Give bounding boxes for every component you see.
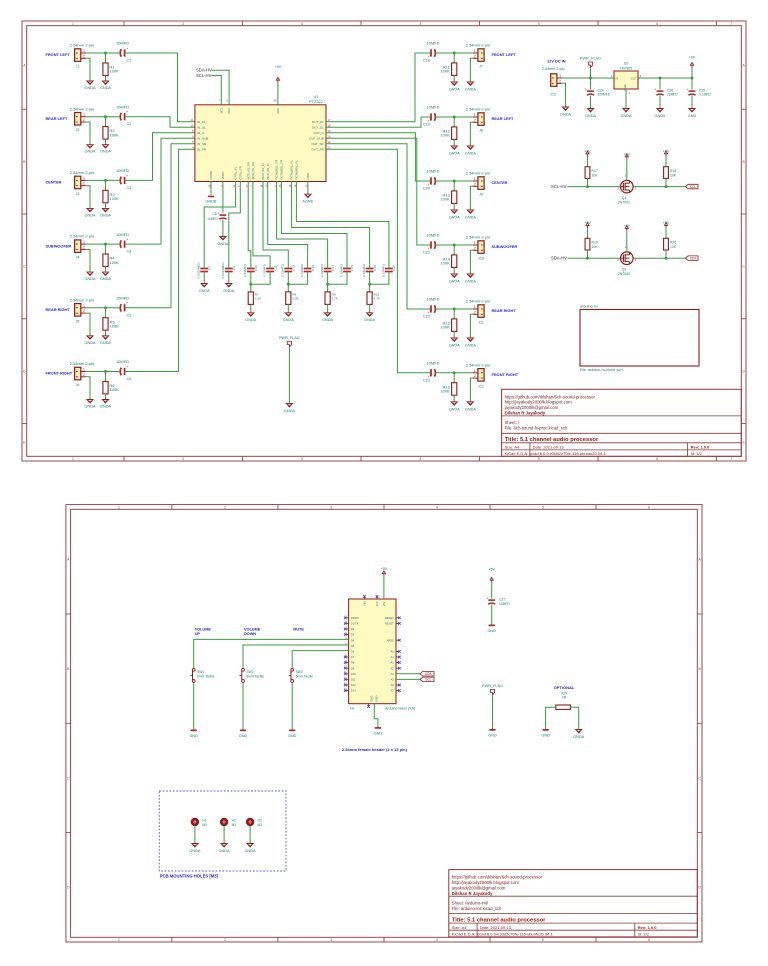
- svg-text:1: 1: [83, 240, 85, 244]
- svg-text:GNDA: GNDA: [245, 849, 256, 853]
- svg-text:0.1MFD: 0.1MFD: [699, 93, 711, 97]
- svg-text:GNDA: GNDA: [199, 289, 210, 293]
- svg-text:2.54mm 2-pin: 2.54mm 2-pin: [70, 43, 94, 48]
- svg-text:1: 1: [118, 506, 120, 510]
- svg-text:1: 1: [474, 49, 476, 53]
- svg-text:0.01MFD: 0.01MFD: [243, 263, 247, 276]
- svg-text:GNDA: GNDA: [284, 409, 295, 413]
- svg-text:GNDA: GNDA: [217, 242, 228, 246]
- svg-text:C12: C12: [292, 265, 296, 271]
- svg-text:jayakody2000lk@gmail.com: jayakody2000lk@gmail.com: [451, 885, 506, 890]
- svg-text:J5: J5: [76, 319, 80, 323]
- svg-text:+5V: +5V: [663, 221, 670, 225]
- svg-text:2.54mm 2-pin: 2.54mm 2-pin: [466, 107, 490, 112]
- svg-text:KiCad E.D.A. kicad 6.0.0-e3dd: KiCad E.D.A. kicad 6.0.0-e3dd2c70fe-116-…: [505, 451, 607, 456]
- svg-text:GNDA: GNDA: [85, 405, 96, 409]
- svg-text:1: 1: [474, 305, 476, 309]
- svg-text:J6: J6: [76, 383, 80, 387]
- svg-text:D13: D13: [351, 689, 356, 693]
- svg-text:GNDA: GNDA: [573, 735, 584, 739]
- svg-text:GNDA: GNDA: [100, 213, 111, 217]
- svg-text:1: 1: [83, 304, 85, 308]
- svg-text:Date: 2021-09-13: Date: 2021-09-13: [480, 925, 512, 930]
- svg-text:SCL: SCL: [425, 678, 431, 682]
- svg-text:SW3: SW3: [296, 670, 303, 674]
- svg-text:RESET: RESET: [385, 616, 394, 620]
- svg-text:J3: J3: [76, 192, 80, 196]
- svg-text:10MFD: 10MFD: [426, 361, 439, 366]
- svg-text:Dilshan R Jayakody: Dilshan R Jayakody: [452, 891, 493, 896]
- svg-text:SCL: SCL: [219, 107, 223, 113]
- svg-text:CENTER: CENTER: [492, 180, 508, 185]
- svg-text:GNDA: GNDA: [100, 341, 111, 345]
- svg-text:100K: 100K: [440, 133, 450, 138]
- svg-text:C3: C3: [127, 186, 132, 190]
- svg-text:B: B: [23, 160, 26, 164]
- svg-text:2N7002: 2N7002: [618, 272, 630, 276]
- svg-text:GNDA: GNDA: [85, 277, 96, 281]
- svg-text:+9V: +9V: [584, 221, 591, 225]
- svg-text:3: 3: [301, 457, 303, 461]
- svg-text:100MFD: 100MFD: [598, 93, 611, 97]
- svg-text:J9: J9: [479, 193, 483, 197]
- svg-text:J7: J7: [479, 65, 483, 69]
- svg-text:A: A: [698, 558, 701, 562]
- svg-text:5: 5: [345, 637, 347, 641]
- svg-text:5: 5: [538, 457, 540, 461]
- svg-text:6: 6: [656, 22, 658, 26]
- svg-text:2: 2: [474, 182, 476, 186]
- svg-text:10MFD: 10MFD: [426, 105, 439, 110]
- svg-text:1: 1: [611, 74, 613, 78]
- svg-text:J12: J12: [478, 384, 484, 388]
- svg-text:SW1: SW1: [197, 670, 204, 674]
- svg-text:2: 2: [182, 22, 184, 26]
- svg-text:E: E: [742, 441, 745, 445]
- svg-text:GND: GND: [541, 734, 550, 738]
- svg-text:OUT_SL: OUT_SL: [312, 126, 324, 130]
- svg-text:CENTER: CENTER: [46, 180, 62, 185]
- svg-text:GNDA: GNDA: [655, 114, 666, 118]
- svg-text:5: 5: [542, 938, 544, 942]
- svg-text:1: 1: [83, 368, 85, 372]
- svg-text:6: 6: [648, 506, 650, 510]
- svg-text:C7: C7: [207, 266, 211, 270]
- svg-text:C: C: [23, 265, 26, 269]
- svg-text:+: +: [585, 87, 587, 91]
- svg-text:4: 4: [436, 938, 438, 942]
- svg-text:IN_FR: IN_FR: [197, 148, 207, 152]
- svg-text:1: 1: [83, 113, 85, 117]
- svg-text:10MFD: 10MFD: [116, 104, 129, 109]
- svg-text:FRONT RIGHT: FRONT RIGHT: [492, 372, 519, 377]
- svg-text:GNDA: GNDA: [223, 289, 234, 293]
- svg-text:Arduino Nano (XA): Arduino Nano (XA): [385, 707, 415, 711]
- svg-text:J13: J13: [550, 93, 556, 97]
- svg-text:5: 5: [538, 22, 540, 26]
- svg-text:PT2322: PT2322: [309, 99, 324, 104]
- svg-text:BCN_B2_FR: BCN_B2_FR: [246, 161, 250, 179]
- svg-text:GND: GND: [306, 172, 310, 180]
- svg-text:2.54mm 2-pin: 2.54mm 2-pin: [466, 299, 490, 304]
- svg-text:2.54mm 2-pin: 2.54mm 2-pin: [70, 106, 94, 111]
- svg-text:https://github.com/dilshan/6ch: https://github.com/dilshan/6ch-sound-pro…: [505, 394, 596, 399]
- svg-text:C: C: [698, 776, 701, 780]
- svg-text:C: C: [742, 265, 745, 269]
- svg-text:2: 2: [83, 182, 85, 186]
- svg-text:PWR_FLAG: PWR_FLAG: [279, 336, 300, 340]
- svg-text:2.54mm 2-pin: 2.54mm 2-pin: [466, 362, 490, 367]
- svg-text:GNDA: GNDA: [449, 88, 460, 92]
- svg-text:E: E: [23, 441, 26, 445]
- svg-text:SCL-HV: SCL-HV: [196, 73, 212, 78]
- svg-text:2.54mm 2-pin: 2.54mm 2-pin: [466, 235, 490, 240]
- svg-text:Id: 2/2: Id: 2/2: [638, 932, 650, 937]
- svg-text:Size: A4: Size: A4: [452, 925, 467, 930]
- svg-text:2.54mm 2-pin: 2.54mm 2-pin: [466, 43, 490, 48]
- svg-text:2: 2: [224, 938, 226, 942]
- svg-text:10MFD: 10MFD: [116, 232, 129, 237]
- svg-text:SCL: SCL: [690, 185, 696, 189]
- svg-text:2: 2: [474, 118, 476, 122]
- svg-text:+9V: +9V: [275, 65, 282, 69]
- svg-text:arduino-hv: arduino-hv: [580, 305, 598, 309]
- svg-text:GNDA: GNDA: [322, 318, 333, 322]
- svg-text:D9: D9: [351, 666, 355, 670]
- svg-text:D12: D12: [351, 683, 356, 687]
- svg-text:C4: C4: [127, 250, 132, 254]
- svg-text:2: 2: [474, 246, 476, 250]
- svg-text:+: +: [126, 110, 128, 114]
- svg-text:+5V: +5V: [624, 224, 631, 228]
- svg-text:D: D: [67, 886, 70, 890]
- svg-text:+5V: +5V: [624, 153, 631, 157]
- svg-text:3V3: 3V3: [375, 601, 379, 606]
- svg-text:A4: A4: [391, 672, 395, 676]
- svg-text:+: +: [126, 365, 128, 369]
- svg-text:D6: D6: [351, 650, 355, 654]
- svg-text:C17: C17: [392, 265, 396, 271]
- svg-text:D4: D4: [351, 638, 355, 642]
- svg-text:IN_SUB: IN_SUB: [197, 137, 208, 141]
- svg-text:C22: C22: [423, 315, 430, 319]
- svg-text:100K: 100K: [440, 389, 450, 394]
- svg-text:SDA-HV: SDA-HV: [196, 68, 212, 73]
- svg-text:UP: UP: [195, 632, 201, 636]
- svg-text:C14: C14: [331, 265, 335, 271]
- svg-text:2.54mm 2-pin: 2.54mm 2-pin: [70, 297, 94, 302]
- svg-text:GND: GND: [288, 734, 297, 738]
- svg-text:File: arduino-hv.kicad_sch: File: arduino-hv.kicad_sch: [580, 368, 623, 372]
- svg-text:10K: 10K: [592, 245, 599, 249]
- svg-text:0.0022MFD: 0.0022MFD: [197, 262, 201, 279]
- svg-text:RESET: RESET: [385, 622, 394, 626]
- svg-text:6: 6: [345, 642, 347, 646]
- svg-text:D1/TX: D1/TX: [351, 622, 359, 626]
- svg-text:5: 5: [542, 506, 544, 510]
- svg-text:+: +: [686, 87, 688, 91]
- svg-text:File: 6ch-sound-fx-proc.kicad_: File: 6ch-sound-fx-proc.kicad_sch: [505, 426, 568, 431]
- svg-text:10MFD: 10MFD: [426, 169, 439, 174]
- svg-text:12V DC IN: 12V DC IN: [547, 59, 566, 64]
- svg-text:RCN&BSL_FL: RCN&BSL_FL: [295, 160, 299, 180]
- svg-text:GNDA: GNDA: [85, 150, 96, 154]
- svg-text:http://jayakody2000lk.blogspot: http://jayakody2000lk.blogspot.com: [505, 400, 573, 405]
- svg-text:GND: GND: [189, 734, 198, 738]
- svg-text:GNDA: GNDA: [100, 86, 111, 90]
- svg-text:2: 2: [224, 506, 226, 510]
- svg-text:100K: 100K: [440, 197, 450, 202]
- svg-text:Sheet: /arduino-init/: Sheet: /arduino-init/: [452, 900, 489, 905]
- svg-text:OUT_SR: OUT_SR: [311, 142, 324, 146]
- svg-text:A1: A1: [391, 655, 395, 659]
- svg-text:D0/RX: D0/RX: [351, 616, 359, 620]
- svg-text:+: +: [126, 174, 128, 178]
- svg-text:2.54mm 2-pin: 2.54mm 2-pin: [70, 234, 94, 239]
- svg-text:J1: J1: [76, 65, 80, 69]
- svg-text:GNDA: GNDA: [449, 216, 460, 220]
- svg-text:GNDA: GNDA: [189, 849, 200, 853]
- svg-text:1: 1: [474, 241, 476, 245]
- svg-text:GNDA: GNDA: [560, 113, 571, 117]
- svg-text:C8: C8: [212, 212, 216, 216]
- svg-text:GNDA: GNDA: [85, 213, 96, 217]
- svg-text:PWR_FLAG: PWR_FLAG: [580, 57, 601, 61]
- svg-text:OUT: OUT: [631, 77, 637, 81]
- svg-text:AGND: AGND: [302, 200, 313, 204]
- svg-text:6.7K: 6.7K: [332, 297, 339, 301]
- svg-text:LM7805: LM7805: [620, 66, 632, 70]
- svg-text:GND: GND: [688, 114, 697, 118]
- svg-text:GND: GND: [374, 732, 383, 736]
- svg-text:+9V: +9V: [689, 56, 696, 60]
- svg-text:C27: C27: [499, 598, 505, 602]
- svg-text:C9: C9: [232, 266, 236, 270]
- svg-text:RCN&BSL_FR: RCN&BSL_FR: [280, 159, 284, 180]
- svg-text:CTRL_FL: CTRL_FL: [234, 166, 238, 179]
- svg-text:10MFD: 10MFD: [426, 297, 439, 302]
- svg-text:IN_C: IN_C: [197, 131, 205, 135]
- svg-text:100K: 100K: [440, 69, 450, 74]
- svg-text:10MFD: 10MFD: [426, 41, 439, 46]
- svg-text:VCC: VCC: [276, 108, 280, 114]
- svg-text:A: A: [742, 63, 745, 67]
- svg-text:GNDA: GNDA: [621, 114, 632, 118]
- svg-text:A7: A7: [391, 689, 395, 693]
- svg-text:C5: C5: [127, 313, 132, 317]
- svg-text:GND: GND: [239, 734, 248, 738]
- svg-text:+: +: [217, 211, 219, 215]
- svg-text:SUBWOOFER: SUBWOOFER: [492, 244, 518, 249]
- svg-text:VREF: VREF: [221, 171, 225, 179]
- svg-text:M3: M3: [258, 823, 263, 827]
- svg-text:SDA: SDA: [425, 672, 432, 676]
- svg-text:M3: M3: [202, 823, 207, 827]
- svg-text:REAR RIGHT: REAR RIGHT: [46, 307, 71, 312]
- svg-text:10K: 10K: [592, 173, 599, 177]
- svg-text:11: 11: [191, 118, 194, 122]
- svg-text:Size: A4: Size: A4: [505, 445, 520, 450]
- svg-text:7: 7: [730, 22, 732, 26]
- svg-text:D11: D11: [351, 678, 356, 682]
- svg-text:+: +: [486, 596, 488, 600]
- svg-text:0.15MFD: 0.15MFD: [320, 263, 324, 276]
- svg-text:D8: D8: [351, 661, 355, 665]
- svg-text:C: C: [67, 776, 70, 780]
- svg-text:VIN: VIN: [362, 602, 366, 607]
- svg-text:AREF: AREF: [387, 638, 395, 642]
- svg-text:0.15MFD: 0.15MFD: [362, 263, 366, 276]
- svg-text:B: B: [67, 667, 70, 671]
- svg-text:2: 2: [83, 373, 85, 377]
- svg-text:1: 1: [83, 176, 85, 180]
- svg-text:GNDA: GNDA: [364, 318, 375, 322]
- svg-text:100K: 100K: [110, 69, 120, 74]
- svg-text:7: 7: [218, 99, 220, 103]
- svg-text:0.01MFD: 0.01MFD: [263, 263, 267, 276]
- svg-text:D3: D3: [351, 633, 355, 637]
- svg-text:10K: 10K: [670, 245, 677, 249]
- svg-text:PCB MOUNTING HOLES [M3]: PCB MOUNTING HOLES [M3]: [160, 874, 219, 879]
- svg-text:2: 2: [182, 457, 184, 461]
- svg-text:B: B: [698, 667, 701, 671]
- svg-text:FRONT LEFT: FRONT LEFT: [492, 52, 517, 57]
- svg-text:10MFD: 10MFD: [426, 233, 439, 238]
- svg-text:C18: C18: [423, 59, 430, 63]
- svg-text:6: 6: [656, 457, 658, 461]
- svg-text:GNDA: GNDA: [245, 318, 256, 322]
- svg-text:2: 2: [474, 54, 476, 58]
- svg-text:GNDA: GNDA: [100, 277, 111, 281]
- svg-text:10MFD: 10MFD: [116, 41, 129, 46]
- svg-text:GNDA: GNDA: [100, 150, 111, 154]
- svg-text:+: +: [126, 301, 128, 305]
- svg-text:3: 3: [330, 938, 332, 942]
- svg-text:1: 1: [72, 22, 74, 26]
- svg-text:A: A: [23, 63, 26, 67]
- svg-text:+5V: +5V: [663, 150, 670, 154]
- svg-text:2: 2: [83, 245, 85, 249]
- svg-text:D: D: [698, 886, 701, 890]
- svg-text:KiCad E.D.A. kicad 6.0.0-e3dd: KiCad E.D.A. kicad 6.0.0-e3dd2c70fe-116-…: [452, 932, 554, 937]
- svg-text:J11: J11: [478, 321, 484, 325]
- svg-text:+: +: [126, 46, 128, 50]
- svg-text:GNDA: GNDA: [449, 280, 460, 284]
- svg-text:GNDA: GNDA: [465, 152, 476, 156]
- svg-text:C15: C15: [350, 265, 354, 271]
- svg-text:2.54mm female header (2 x 15 p: 2.54mm female header (2 x 15 p/n): [342, 747, 408, 752]
- svg-text:10MFD: 10MFD: [207, 217, 218, 221]
- svg-text:D5: D5: [351, 644, 355, 648]
- svg-text:IN: IN: [616, 77, 619, 81]
- svg-text:https://github.com/dilshan/6ch: https://github.com/dilshan/6ch-sound-pro…: [452, 875, 543, 880]
- svg-text:GNDA: GNDA: [449, 407, 460, 411]
- svg-text:2: 2: [83, 309, 85, 313]
- svg-text:0.01MFD: 0.01MFD: [300, 263, 304, 276]
- svg-text:4: 4: [419, 457, 421, 461]
- svg-text:1: 1: [474, 177, 476, 181]
- svg-text:28: 28: [273, 99, 277, 103]
- svg-text:GND: GND: [370, 696, 374, 702]
- svg-text:DGND: DGND: [209, 170, 213, 180]
- svg-text:2: 2: [83, 54, 85, 58]
- svg-text:10: 10: [190, 124, 194, 128]
- svg-text:4: 4: [436, 506, 438, 510]
- svg-text:SUBWOOFER: SUBWOOFER: [46, 243, 72, 248]
- svg-text:+: +: [654, 87, 656, 91]
- svg-text:100K: 100K: [110, 196, 120, 201]
- svg-text:10MFD: 10MFD: [116, 296, 129, 301]
- svg-text:C11: C11: [273, 265, 277, 271]
- svg-text:Title: 5.1 channel audio proce: Title: 5.1 channel audio processor: [452, 917, 546, 923]
- svg-text:100K: 100K: [440, 261, 450, 266]
- svg-text:PWR_FLAG: PWR_FLAG: [482, 684, 503, 688]
- svg-text:2: 2: [83, 118, 85, 122]
- svg-text:10K: 10K: [670, 173, 677, 177]
- svg-text:10MFD: 10MFD: [116, 359, 129, 364]
- svg-text:C23: C23: [423, 378, 430, 382]
- svg-text:2.54mm 2-pin: 2.54mm 2-pin: [70, 361, 94, 366]
- svg-text:Id: 1/2: Id: 1/2: [691, 451, 703, 456]
- svg-text:GND: GND: [375, 696, 379, 702]
- svg-text:GND: GND: [487, 629, 496, 633]
- svg-text:8: 8: [226, 99, 228, 103]
- svg-text:OPTIONAL: OPTIONAL: [554, 685, 575, 690]
- svg-text:A5: A5: [391, 678, 395, 682]
- svg-text:M3: M3: [232, 823, 237, 827]
- svg-text:MUTE: MUTE: [293, 628, 304, 632]
- svg-text:GNDA: GNDA: [100, 405, 111, 409]
- svg-text:D2: D2: [351, 627, 355, 631]
- svg-text:GND: GND: [488, 734, 497, 738]
- svg-text:C13: C13: [311, 265, 315, 271]
- svg-text:DOWN: DOWN: [244, 632, 256, 636]
- svg-text:GNDA: GNDA: [85, 86, 96, 90]
- svg-text:FRONT RIGHT: FRONT RIGHT: [46, 371, 73, 376]
- svg-text:6.7K: 6.7K: [374, 297, 381, 301]
- svg-text:D: D: [23, 370, 26, 374]
- svg-text:GNDA: GNDA: [465, 88, 476, 92]
- svg-text:+5V: +5V: [488, 568, 495, 572]
- svg-text:A2: A2: [391, 661, 395, 665]
- svg-text:Rev: 1.0.0: Rev: 1.0.0: [638, 925, 657, 930]
- svg-text:SCL-HV: SCL-HV: [551, 184, 567, 189]
- svg-text:C21: C21: [423, 251, 430, 255]
- svg-text:BCN_B2_FL: BCN_B2_FL: [266, 162, 270, 179]
- svg-text:Title: 5.1 channel audio proce: Title: 5.1 channel audio processor: [505, 437, 599, 443]
- svg-text:GNDA: GNDA: [283, 318, 294, 322]
- svg-text:D10: D10: [351, 672, 356, 676]
- svg-text:100K: 100K: [440, 325, 450, 330]
- svg-text:0R: 0R: [562, 695, 567, 699]
- svg-text:IN_FL: IN_FL: [197, 120, 206, 124]
- svg-text:C10: C10: [254, 265, 258, 271]
- svg-text:REAR LEFT: REAR LEFT: [492, 116, 514, 121]
- svg-text:GNDA: GNDA: [465, 280, 476, 284]
- svg-text:2.54mm 2-pin: 2.54mm 2-pin: [70, 170, 94, 175]
- svg-text:4: 4: [419, 22, 421, 26]
- svg-text:3: 3: [301, 22, 303, 26]
- svg-text:6mm Tactile: 6mm Tactile: [197, 675, 215, 679]
- svg-text:File: arduino-init.kicad_sch: File: arduino-init.kicad_sch: [452, 906, 502, 911]
- svg-text:0.01MFD: 0.01MFD: [281, 263, 285, 276]
- svg-text:SW2: SW2: [246, 670, 253, 674]
- svg-text:D7: D7: [351, 655, 355, 659]
- svg-text:J4: J4: [76, 256, 80, 260]
- svg-text:2: 2: [474, 310, 476, 314]
- svg-text:IN_SR: IN_SR: [197, 142, 207, 146]
- svg-text:6: 6: [648, 938, 650, 942]
